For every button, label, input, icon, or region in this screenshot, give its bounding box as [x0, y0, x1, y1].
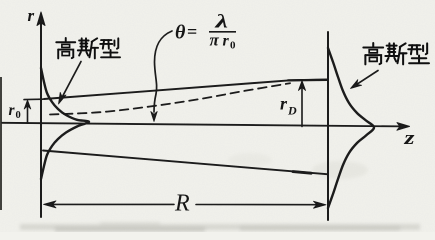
rD top tick	[288, 79, 327, 82]
char Gao	[56, 38, 75, 58]
r0 tick line at waist	[24, 98, 43, 100]
svg-text:=: =	[187, 22, 197, 42]
svg-text:θ: θ	[175, 22, 186, 44]
R dimension line left segment	[47, 203, 174, 205]
svg-text:λ: λ	[214, 13, 228, 33]
leader arrow from right label	[357, 71, 378, 85]
scan smudge band at bottom	[20, 153, 420, 232]
dashed divergence line	[50, 83, 290, 114]
char Si	[78, 38, 98, 58]
bottom edge ink blob	[293, 172, 311, 174]
left label "Gaussian type" CJK strokes	[56, 38, 120, 58]
R right arrowhead	[314, 201, 327, 208]
leader curve from formula to angle	[154, 31, 172, 112]
fraction bar of formula	[209, 31, 236, 33]
leader arrowhead at angle	[151, 112, 157, 122]
svg-text:r: r	[9, 102, 16, 119]
right label "Gaussian type" CJK strokes	[363, 43, 429, 64]
r axis (left vertical axis with up arrow)	[40, 22, 42, 217]
scan artifact strip at left edge	[0, 77, 2, 210]
svg-text:0: 0	[16, 110, 21, 121]
R left arrowhead	[44, 201, 57, 208]
svg-text:r: r	[223, 33, 230, 50]
z axis arrowhead	[397, 123, 410, 131]
svg-text:r: r	[280, 94, 288, 114]
svg-text:z: z	[403, 128, 415, 149]
svg-text:π: π	[210, 31, 220, 50]
beam top edge	[44, 80, 327, 99]
svg-text:0: 0	[230, 40, 236, 52]
beam bottom edge	[43, 151, 327, 175]
right screen vertical line	[327, 32, 329, 220]
right gaussian curve	[328, 48, 374, 208]
rD arrow	[301, 86, 303, 127]
center z line	[2, 123, 403, 127]
char Xing	[100, 38, 120, 57]
left gaussian curve	[41, 68, 89, 179]
R dimension line right segment	[196, 204, 322, 206]
svg-text:R: R	[174, 191, 190, 217]
r0 arrow (waist radius)	[27, 104, 29, 123]
leader arrow from left label	[63, 62, 82, 97]
svg-text:r: r	[28, 6, 35, 25]
svg-text:D: D	[287, 104, 297, 118]
